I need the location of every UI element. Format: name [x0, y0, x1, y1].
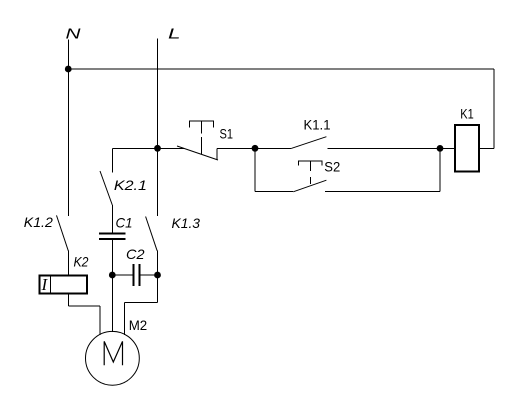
wire top horizontal — [68, 68, 494, 70]
wire K1.3 column down — [157, 275, 159, 303]
svg-text:M2: M2 — [129, 317, 148, 333]
wire S1 to K1.1 — [217, 147, 292, 149]
wire rung to S1 — [158, 147, 185, 149]
wire K1.3 lower terminal — [157, 251, 159, 275]
svg-text:I: I — [41, 275, 49, 294]
wire S2 branch left drop — [254, 148, 256, 191]
pushbutton S1 (NC) — [177, 121, 218, 160]
wire C2 right lead — [140, 274, 158, 276]
wire K2 bottom lead — [67, 294, 69, 306]
node junction L/rung — [154, 145, 161, 152]
svg-text:C1: C1 — [116, 215, 133, 231]
motor M2 circle — [86, 331, 140, 385]
svg-text:K1.1: K1.1 — [304, 117, 331, 133]
wire S2 branch left horizontal — [255, 191, 293, 193]
contact K1.1 (NO) — [292, 137, 327, 149]
wire C1 to node — [111, 239, 113, 275]
wire N rail vertical — [67, 40, 69, 217]
motor M glyph — [104, 341, 122, 365]
wire K1.2 lower terminal — [67, 251, 69, 276]
contact K2.1 (NO) — [100, 171, 112, 205]
wire L rail vertical — [157, 39, 159, 149]
wire motor right lead — [123, 303, 125, 335]
svg-text:K1.2: K1.2 — [24, 214, 53, 230]
svg-text:K1.3: K1.3 — [172, 215, 201, 231]
contact K1.3 (NO) — [146, 217, 158, 251]
wire K1 right pin — [479, 147, 494, 149]
node junction S2 branch — [252, 145, 259, 152]
wire node to motor — [111, 275, 113, 332]
wire bottom jog horizontal — [124, 302, 157, 304]
svg-text:S2: S2 — [324, 159, 340, 175]
svg-text:K2: K2 — [74, 254, 89, 270]
wire K1.3 upper terminal — [157, 148, 159, 216]
node junction K1.3/C2 — [154, 272, 161, 279]
wire right drop to K1 — [493, 69, 495, 148]
wire motor left lead — [99, 306, 101, 335]
wire bottom-left jog horizontal — [68, 305, 100, 307]
coil K2 (timer) — [40, 276, 88, 294]
contact K1.2 (NO) — [57, 215, 69, 250]
wire K2.1 upper terminal — [111, 148, 113, 172]
svg-text:S1: S1 — [220, 125, 234, 141]
wire K2.1 lower terminal — [111, 205, 113, 234]
svg-text:K2.1: K2.1 — [114, 177, 147, 193]
capacitor C2 — [134, 264, 140, 286]
node junction N/top — [65, 66, 72, 73]
wire K1.1 to K1 node — [328, 147, 441, 149]
svg-text:K1: K1 — [460, 105, 474, 121]
svg-text:L: L — [168, 26, 181, 43]
wire S2 branch right horizontal — [325, 191, 440, 193]
node junction K1/rung — [437, 145, 444, 152]
svg-text:C2: C2 — [126, 246, 145, 262]
wire S2 branch right rise — [439, 148, 441, 191]
wire rung left segment — [112, 147, 157, 149]
pushbutton S2 (NO) — [293, 161, 326, 192]
wire C2 left lead — [112, 274, 133, 276]
node junction C1/C2/motor — [109, 272, 116, 279]
coil K1 — [455, 125, 479, 172]
capacitor C1 — [99, 234, 126, 240]
wire K1 left pin — [440, 147, 454, 149]
